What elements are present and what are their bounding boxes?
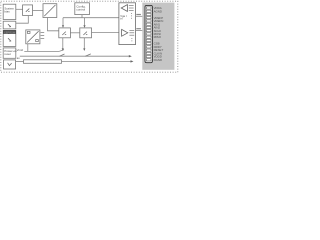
block U10 EEPROM (dark header) bbox=[3, 30, 16, 46]
wire U3 down to U5 bbox=[48, 18, 59, 31]
wire W2 output rail with arrowhead bbox=[62, 60, 134, 62]
wire W1 analog rail with arrowhead bbox=[20, 55, 132, 57]
wire U8 up to U2 bbox=[16, 16, 28, 24]
pin labels bbox=[154, 6, 164, 62]
connector J1 body bbox=[145, 5, 152, 62]
control bus wire bbox=[63, 17, 119, 19]
block U3 programmable gain (slash box) bbox=[43, 4, 57, 18]
block U6 trim cell bbox=[80, 28, 92, 38]
arrow bus into U6 bbox=[83, 18, 85, 28]
receiver triangle (left pointing) bbox=[121, 5, 127, 12]
svg-text:EEPROM: EEPROM bbox=[4, 31, 15, 34]
connector J1 pins bbox=[146, 7, 151, 61]
svg-text:Vmid: Vmid bbox=[17, 48, 24, 52]
svg-text:bias: bias bbox=[4, 9, 10, 13]
stub U9 to pad panel (top) with label bbox=[136, 14, 143, 16]
block U11 oscillator bbox=[3, 48, 17, 58]
wire U2 to U3 bbox=[33, 10, 44, 12]
switch S1 blade bbox=[60, 54, 65, 56]
wire U5 to U6 bbox=[70, 32, 79, 34]
block U9 interface buffers bbox=[119, 3, 136, 45]
wire U6 to U9 bbox=[92, 31, 119, 33]
bus stubs out of U7 bbox=[41, 33, 45, 39]
driver triangle (right pointing) bbox=[122, 29, 128, 36]
wire ADC output rail bbox=[24, 44, 64, 52]
block U8 temperature sensor bbox=[3, 21, 16, 29]
svg-text:control: control bbox=[76, 7, 85, 11]
block U1 system bias bbox=[3, 4, 16, 19]
arrow U6 down to switch S2 bbox=[83, 38, 85, 51]
block U7 ADC (slash box with corner marks) bbox=[26, 30, 40, 44]
wire U13 to resistor R1 bbox=[16, 61, 24, 63]
pad panel (grey) bbox=[142, 3, 174, 70]
resistor R1 (long series box) bbox=[24, 60, 62, 64]
svg-text:AGND: AGND bbox=[154, 9, 162, 13]
svg-text:DGND: DGND bbox=[154, 58, 163, 62]
block U2 reference buffer bbox=[23, 5, 33, 16]
block U4 config control bbox=[75, 3, 90, 15]
receiver input dashes bbox=[129, 6, 134, 19]
label inside U9 bbox=[120, 14, 127, 21]
svg-text:reset: reset bbox=[4, 52, 11, 56]
svg-text:MISO: MISO bbox=[154, 35, 162, 39]
wire U4 to control bus bbox=[81, 15, 83, 18]
arrow U5 down to switch S1 bbox=[62, 38, 64, 51]
arrow bus into U5 bbox=[62, 18, 64, 28]
switch S2 blade bbox=[85, 54, 91, 56]
svg-text:tri: tri bbox=[120, 16, 123, 20]
svg-text:av: av bbox=[17, 56, 21, 60]
stub U9 to pad panel (bottom) with label bbox=[136, 28, 143, 30]
block U13 clamp cell bbox=[4, 60, 16, 69]
driver output dashes bbox=[129, 30, 134, 41]
wire U1 to U2 bbox=[16, 8, 23, 10]
block U5 trim cell bbox=[59, 28, 71, 38]
chip boundary (dashed) bbox=[1, 1, 178, 72]
